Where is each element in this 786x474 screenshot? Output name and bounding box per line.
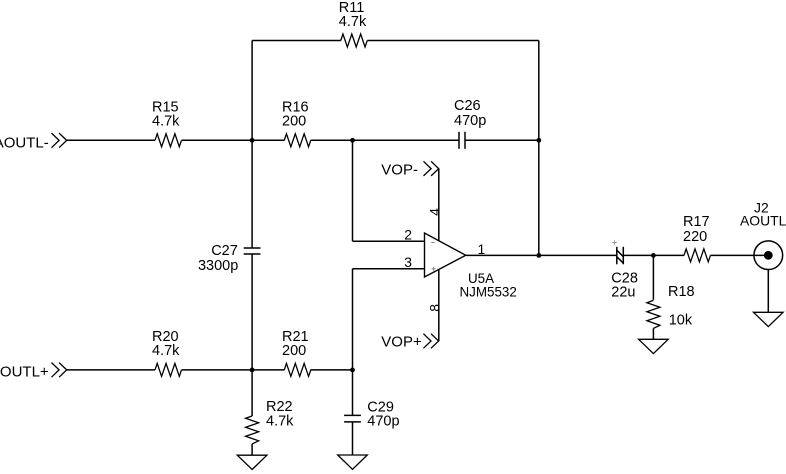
wire R20 to node3 — [182, 369, 253, 371]
resistor R16 — [284, 134, 311, 147]
wire output pin1 — [466, 254, 539, 256]
resistor R17 — [684, 249, 711, 262]
wire R22 bottom — [251, 444, 253, 455]
wire node2 to C26 — [353, 139, 460, 141]
wire pin3 vertical — [352, 269, 354, 370]
C28 polarity plus mark — [612, 240, 617, 245]
resistor R15 — [155, 134, 182, 147]
node AOUTL- off-page connector — [51, 133, 66, 148]
junction node5 (C28/R17/R18) — [651, 253, 656, 258]
capacitor C26 — [459, 132, 465, 149]
capacitor C29 — [344, 415, 361, 422]
wire feedback vertical to output — [538, 140, 540, 255]
wire C28 to node5 — [623, 254, 653, 256]
svg-text:2: 2 — [404, 227, 412, 243]
svg-text:1: 1 — [478, 241, 486, 257]
svg-text:C27: C27 — [211, 243, 238, 259]
wire pin2 horizontal — [353, 240, 425, 242]
resistor R22 — [246, 416, 259, 444]
ground below J2 — [754, 312, 784, 326]
wire pin2 vertical — [352, 140, 354, 241]
wire top to R11 — [252, 40, 341, 42]
svg-text:8: 8 — [426, 304, 442, 312]
svg-text:10k: 10k — [669, 312, 693, 328]
resistor R21 — [284, 363, 311, 376]
capacitor C28 (polarized) — [617, 247, 624, 264]
wire C26 to feedback column — [465, 139, 539, 141]
svg-text:AOUTL-: AOUTL- — [0, 134, 49, 151]
node VOP- off-page connector — [424, 161, 439, 176]
wire right vertical R11 loop — [538, 41, 540, 141]
resistor R18 — [647, 300, 660, 328]
wire C29 top — [352, 370, 354, 416]
resistor R11 — [341, 34, 368, 47]
wire output to C28 — [539, 254, 617, 256]
ground below C29 — [338, 455, 368, 469]
wire C27 bottom — [251, 254, 253, 370]
wire node3 to R21 — [252, 369, 284, 371]
wire C29 bottom — [352, 422, 354, 455]
wire AOUTL- to R15 — [67, 139, 155, 141]
connector J2 center pin — [764, 251, 773, 260]
svg-text:C26: C26 — [454, 98, 481, 114]
svg-text:VOP-: VOP- — [381, 161, 418, 178]
wire pin3 horizontal — [353, 268, 425, 270]
svg-text:R18: R18 — [668, 284, 695, 300]
resistor R20 — [155, 363, 182, 376]
op-amp inverting input mark — [431, 242, 435, 244]
svg-text:4.7k: 4.7k — [152, 114, 180, 130]
svg-text:NJM5532: NJM5532 — [460, 285, 517, 300]
wire R15 to node1 — [182, 139, 253, 141]
wire R17 to J2 — [710, 254, 764, 256]
junction output/feedback — [536, 253, 541, 258]
wire J2 to ground — [767, 270, 769, 313]
junction node3 (R20/R21/C27/R22) — [250, 368, 255, 373]
svg-text:3300p: 3300p — [198, 258, 238, 274]
op-amp U5A triangle — [425, 233, 466, 277]
svg-text:VOP+: VOP+ — [381, 333, 422, 350]
connector J2 outer circle — [754, 241, 783, 270]
svg-text:4: 4 — [426, 208, 442, 216]
junction node1 (R15/R16/C27) — [250, 138, 255, 143]
svg-text:200: 200 — [282, 343, 306, 359]
node AOUTL+ off-page connector — [51, 363, 66, 378]
ground below R22 — [237, 455, 267, 469]
op-amp non-inverting input mark — [432, 267, 436, 271]
wire R16 to node2 — [311, 139, 353, 141]
ground below R18 — [639, 339, 669, 353]
junction C26/feedback — [536, 138, 541, 143]
wire pin4 vertical — [438, 169, 440, 241]
wire node5 to R17 — [653, 254, 684, 256]
wire node1 to R16 — [252, 139, 284, 141]
svg-text:200: 200 — [282, 114, 306, 130]
svg-text:4.7k: 4.7k — [152, 343, 180, 359]
junction node2 (R16/C26/pin2) — [350, 138, 355, 143]
svg-text:470p: 470p — [367, 413, 399, 429]
wire R18 top — [652, 255, 654, 300]
wire left vertical R11 loop — [251, 41, 253, 141]
capacitor C27 — [244, 248, 261, 254]
wire R11 to right corner — [367, 40, 539, 42]
svg-text:4.7k: 4.7k — [339, 14, 367, 30]
svg-text:470p: 470p — [454, 113, 486, 129]
svg-text:220: 220 — [683, 229, 707, 245]
wire C27 top — [251, 140, 253, 248]
svg-text:R17: R17 — [683, 214, 710, 230]
junction node4 (R21/pin3/C29) — [350, 368, 355, 373]
wire R21 to node4 — [311, 369, 353, 371]
wire AOUTL+ to R20 — [67, 369, 155, 371]
wire R22 top — [251, 370, 253, 416]
wire R18 bottom — [652, 328, 654, 339]
svg-text:AOUTL+: AOUTL+ — [0, 363, 49, 380]
svg-text:AOUTL: AOUTL — [740, 213, 786, 229]
node VOP+ off-page connector — [423, 334, 438, 349]
svg-text:3: 3 — [404, 254, 412, 270]
wire pin8 vertical — [438, 270, 440, 341]
svg-text:4.7k: 4.7k — [266, 414, 294, 430]
svg-text:22u: 22u — [611, 284, 635, 300]
